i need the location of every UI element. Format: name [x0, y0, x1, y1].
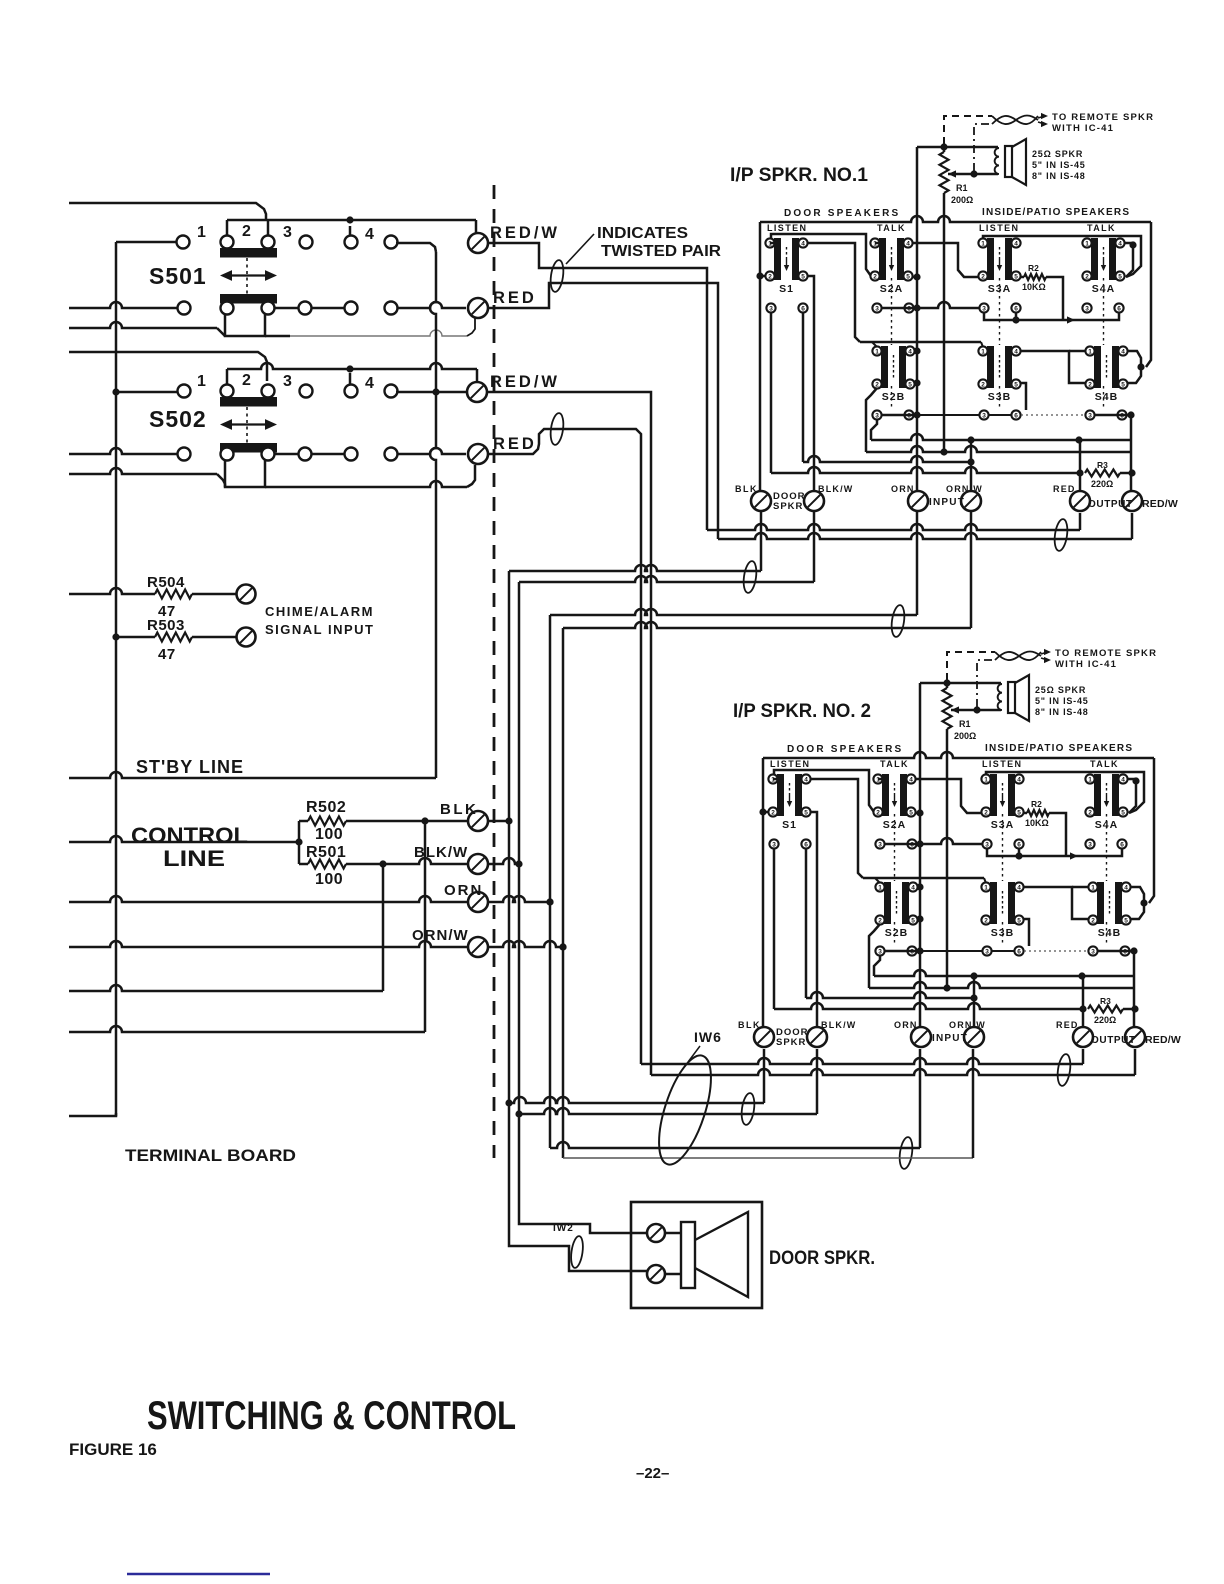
wire pair2 to block2 RED/W [651, 1069, 1135, 1075]
svg-text:R1: R1 [956, 183, 968, 193]
switch S3B [981, 882, 1023, 939]
switch S3A [978, 238, 1020, 295]
svg-text:3: 3 [985, 948, 989, 955]
wire S3B pin4 to S4B pins 1 2 [1023, 887, 1088, 919]
wire ORN/W riser/chain [562, 628, 565, 1158]
wire S2B pin5 stub [915, 382, 917, 385]
resistor R501 100 [299, 863, 308, 866]
svg-text:5: 5 [1121, 381, 1125, 388]
S502 lower contact row [178, 448, 191, 461]
svg-text:6: 6 [1017, 948, 1021, 955]
svg-text:SIGNAL INPUT: SIGNAL INPUT [265, 622, 375, 637]
wire line D ORN/W to block1 [563, 622, 971, 628]
block left frame / BLK lead [762, 758, 765, 1026]
door spkr terminal lower [647, 1265, 665, 1283]
S501 linkage dashes and arrows [246, 258, 248, 294]
wire S2B S3B S4B pin6 row [885, 950, 920, 953]
wire ORN from left edge [69, 896, 468, 902]
wire S2B pin4 stub [915, 350, 917, 353]
twisted marker pair C/D [890, 604, 906, 637]
svg-text:5: 5 [1014, 381, 1018, 388]
svg-text:1: 1 [1091, 884, 1095, 891]
svg-text:6: 6 [1120, 841, 1124, 848]
wire S2A pin6 stub [882, 307, 917, 310]
svg-text:2: 2 [984, 917, 988, 924]
svg-text:5: 5 [909, 809, 913, 816]
svg-text:R504: R504 [147, 574, 185, 591]
inner rail door speakers [774, 770, 874, 812]
svg-text:4: 4 [801, 240, 805, 247]
svg-text:3: 3 [982, 412, 986, 419]
bus end wire to left edge [69, 1113, 116, 1116]
svg-text:4: 4 [1121, 348, 1125, 355]
svg-text:RED/W: RED/W [490, 224, 560, 242]
terminal BLK board [468, 811, 488, 831]
wire BLK to door spkr [509, 1103, 648, 1271]
twisted pair symbol to remote [995, 652, 1041, 661]
svg-text:6: 6 [1117, 305, 1121, 312]
wire line A BLK to block1 [508, 570, 511, 573]
wire S1 pin3 down and across to R3 [773, 849, 776, 1009]
linkage dash S2 [894, 814, 896, 881]
S2A pins 3 6 [875, 839, 884, 848]
S3B pins 3 6 [982, 946, 991, 955]
twisted marker block2 C/D [898, 1136, 914, 1169]
wire BLK/W chain to block2 [519, 1108, 817, 1114]
svg-text:5: 5 [1014, 273, 1018, 280]
svg-text:1: 1 [878, 884, 882, 891]
svg-text:RED/W: RED/W [1145, 1034, 1181, 1046]
wire S2B pin2 down [866, 388, 877, 452]
wire S2A pin6 stub [885, 843, 920, 846]
svg-text:4: 4 [804, 776, 808, 783]
svg-text:2: 2 [242, 223, 251, 240]
svg-text:RED: RED [493, 435, 537, 453]
wire R2 to S4A pin6 [1115, 313, 1119, 320]
svg-text:SWITCHING & CONTROL: SWITCHING & CONTROL [147, 1394, 516, 1438]
twisted pair marker at block1 output [1053, 518, 1069, 551]
wire S2B pin3 to OUTPUT node [871, 420, 877, 440]
wire ORN to riser [488, 896, 550, 902]
wire S3B pin5 stub [1023, 919, 1029, 946]
svg-text:TO REMOTE SPKR: TO REMOTE SPKR [1052, 112, 1154, 123]
twisted marker block2 A/B [740, 1092, 756, 1125]
switch S2A [870, 238, 912, 295]
resistor R3 220ohm [1088, 1006, 1123, 1013]
svg-text:8" IN IS-48: 8" IN IS-48 [1032, 171, 1086, 181]
S2B pins 3 6 [875, 946, 884, 955]
svg-text:DOOR SPEAKERS: DOOR SPEAKERS [787, 744, 903, 755]
terminal chime 1 [237, 585, 256, 604]
svg-text:1: 1 [984, 884, 988, 891]
twisted marker IW2 [569, 1235, 584, 1268]
terminal BLK/W board [468, 854, 488, 874]
block1 RED/W riser [1131, 513, 1134, 539]
wire S3B pin4 to S4B pins 1 2 [1020, 351, 1085, 383]
svg-text:6: 6 [1014, 305, 1018, 312]
linkage dash S3 lower [1002, 922, 1004, 946]
S3A pins 3 6 [982, 839, 991, 848]
svg-text:LISTEN: LISTEN [767, 223, 807, 233]
linkage dash S2 lower [891, 386, 893, 410]
wire line C ORN to block1 [550, 609, 917, 615]
S1 pins 3 6 [769, 839, 778, 848]
wire S2B S3B S4B pin6 row [882, 414, 917, 417]
svg-text:ORN: ORN [894, 1020, 918, 1030]
wire BLK chain to block2 [509, 1097, 764, 1103]
S4B pins 3 6 [1085, 410, 1094, 419]
wire pair1 to RED/W [718, 533, 1132, 539]
wire bus to S501 contact 1 [116, 241, 176, 244]
svg-text:–22–: –22– [636, 1465, 669, 1482]
svg-text:5: 5 [906, 273, 910, 280]
wire ORN chain to block2 [550, 1142, 920, 1148]
linkage dash S4 lower [1103, 386, 1105, 410]
svg-text:WITH IC-41: WITH IC-41 [1052, 123, 1114, 134]
svg-text:DOOR SPKR.: DOOR SPKR. [769, 1248, 875, 1269]
IW6 cable marker [648, 1050, 721, 1171]
linkage dash S2 lower [894, 922, 896, 946]
svg-text:2: 2 [875, 381, 879, 388]
svg-text:3: 3 [878, 841, 882, 848]
svg-text:3: 3 [875, 305, 879, 312]
svg-text:5: 5 [911, 917, 915, 924]
wire BLK/W to door spkr [519, 1114, 648, 1233]
terminal RED/W no2 [467, 382, 487, 402]
svg-text:1: 1 [984, 776, 988, 783]
svg-text:200Ω: 200Ω [951, 195, 973, 205]
linkage dash S3 [999, 278, 1001, 345]
svg-text:S501: S501 [149, 263, 207, 289]
wire BLK to riser [488, 820, 509, 823]
svg-text:3: 3 [283, 224, 292, 241]
wire S1 pin5 to BLK/W terminal [811, 812, 817, 1026]
svg-text:2: 2 [1088, 381, 1092, 388]
svg-text:ORN/W: ORN/W [949, 1020, 986, 1030]
wire S2A pin4 to S3A pin2 [875, 242, 880, 245]
svg-text:2: 2 [876, 809, 880, 816]
wire RED-1 to block1 output [488, 283, 718, 539]
wire S3A pin3/pin6 row [984, 313, 1115, 320]
svg-text:R501: R501 [306, 844, 346, 861]
block top frame wire [763, 752, 1154, 758]
wire BLK riser/chain [508, 571, 511, 1103]
terminal RED no1 [468, 298, 488, 318]
wire S1 pin5 to BLK/W terminal [808, 276, 814, 490]
dashed separator line [493, 185, 496, 1158]
svg-text:25Ω SPKR: 25Ω SPKR [1035, 685, 1086, 695]
svg-text:3: 3 [1088, 841, 1092, 848]
svg-text:1: 1 [1088, 776, 1092, 783]
svg-text:TALK: TALK [1090, 759, 1119, 769]
S4A pins 3 6 [1082, 303, 1091, 312]
svg-text:TALK: TALK [877, 223, 906, 233]
wire RED-2 down to block2 [488, 429, 641, 1064]
svg-text:2: 2 [878, 917, 882, 924]
svg-text:CHIME/ALARM: CHIME/ALARM [265, 604, 374, 619]
speaker 25ohm [995, 148, 999, 174]
svg-text:CONTROL: CONTROL [131, 823, 248, 848]
svg-text:4: 4 [1014, 348, 1018, 355]
wire left edge to S502 row2 [69, 448, 177, 454]
svg-text:4: 4 [1017, 884, 1021, 891]
linkage dash S3 lower [999, 386, 1001, 410]
svg-text:I/P SPKR. NO. 2: I/P SPKR. NO. 2 [733, 701, 871, 722]
wire BLK/W riser/chain [518, 582, 521, 1114]
terminal RED/W [1122, 491, 1142, 511]
dashed wire to remote spkr [947, 652, 995, 680]
svg-text:BLK: BLK [738, 1020, 761, 1030]
inner rail door speakers [771, 234, 871, 276]
svg-text:IW6: IW6 [694, 1029, 722, 1045]
switch S1 [765, 238, 807, 295]
svg-text:INPUT: INPUT [932, 1033, 968, 1044]
wire left edge RED net under S501 [69, 322, 217, 328]
wire S4B pin4 pin5 bracket [1130, 887, 1144, 919]
wire to S3A pin3 [917, 302, 979, 308]
wire line B to RED/W node [869, 982, 1134, 988]
svg-text:220Ω: 220Ω [1091, 479, 1113, 489]
svg-text:4: 4 [909, 776, 913, 783]
wire RED/W-2 down to block2 [487, 392, 651, 1075]
svg-text:5: 5 [1017, 917, 1021, 924]
door speaker cone [695, 1212, 748, 1297]
svg-text:S4B: S4B [1095, 391, 1118, 403]
wire R2 to S4A pin6 [1118, 849, 1122, 856]
svg-text:2: 2 [984, 809, 988, 816]
svg-text:RED: RED [1056, 1020, 1079, 1030]
svg-text:S1: S1 [779, 283, 794, 295]
terminal ORN/W [961, 491, 981, 511]
svg-text:RED/W: RED/W [1142, 498, 1178, 510]
svg-text:2: 2 [771, 809, 775, 816]
wire left edge to BLK/W vertical [69, 985, 383, 991]
svg-text:RED: RED [493, 289, 537, 307]
twisted pair marker at block2 output [1056, 1053, 1072, 1086]
block left frame / BLK lead [759, 222, 762, 490]
svg-text:5: 5 [1121, 809, 1125, 816]
wire line B to RED/W node [866, 446, 1131, 452]
svg-text:R3: R3 [1097, 460, 1108, 470]
svg-text:ORN: ORN [891, 484, 915, 494]
linkage dash S3 [1002, 814, 1004, 881]
wire S1 pin3 down and across to R3 [770, 313, 773, 473]
switch S2B [875, 882, 917, 939]
svg-text:3: 3 [878, 948, 882, 955]
wire S1 pin4 to S2B pin1 [773, 778, 778, 781]
svg-text:3: 3 [1091, 948, 1095, 955]
terminal chime 2 [237, 628, 256, 647]
svg-text:LISTEN: LISTEN [770, 759, 810, 769]
wire BLK/W to riser [488, 858, 519, 864]
twisted marker pair A/B [742, 560, 758, 593]
svg-text:2: 2 [768, 273, 772, 280]
wire to S3A pin3 [920, 838, 982, 844]
switch S2B [872, 346, 914, 403]
svg-text:LINE: LINE [163, 846, 225, 871]
terminal RED/W [1125, 1027, 1145, 1047]
block1 OUTPUT riser [1079, 513, 1082, 530]
svg-text:2: 2 [1085, 273, 1089, 280]
svg-text:3: 3 [772, 841, 776, 848]
svg-text:6: 6 [804, 841, 808, 848]
svg-text:25Ω SPKR: 25Ω SPKR [1032, 149, 1083, 159]
S2B pins 3 6 [872, 410, 881, 419]
S501 upper contact row [177, 236, 190, 249]
R1 lower lead vertical [946, 758, 949, 988]
switch S3B [978, 346, 1020, 403]
svg-text:47: 47 [158, 646, 176, 663]
wire pair2 to block2 OUTPUT [641, 1058, 1083, 1064]
svg-text:SPKR: SPKR [776, 1037, 806, 1048]
svg-text:INSIDE/PATIO SPEAKERS: INSIDE/PATIO SPEAKERS [982, 207, 1130, 218]
svg-text:3: 3 [875, 412, 879, 419]
svg-text:10KΩ: 10KΩ [1025, 818, 1049, 828]
svg-text:4: 4 [911, 884, 915, 891]
svg-text:DOOR SPEAKERS: DOOR SPEAKERS [784, 208, 900, 219]
wire ST BY line [69, 772, 436, 778]
svg-text:TERMINAL BOARD: TERMINAL BOARD [125, 1147, 296, 1165]
switch S501 rail [227, 219, 476, 222]
wire S4A pin4 pin5 bracket [1125, 243, 1133, 277]
wire left edge to S501 row2 [69, 302, 177, 308]
S502 linkage dashes and arrows [246, 407, 248, 443]
terminal ORN board [468, 892, 488, 912]
resistor R502 100 [299, 820, 308, 823]
terminal BLK/W [807, 1027, 827, 1047]
svg-text:S502: S502 [149, 406, 207, 432]
speaker 25ohm [998, 684, 1002, 710]
vertical bus line [115, 242, 118, 1116]
svg-text:BLK: BLK [440, 801, 478, 818]
svg-text:OUTPUT: OUTPUT [1091, 1035, 1136, 1046]
wire S2B pin5 stub [918, 918, 920, 921]
svg-text:1: 1 [981, 348, 985, 355]
svg-text:4: 4 [365, 375, 374, 392]
twisted pair symbol to remote [992, 116, 1038, 125]
svg-text:ST'BY LINE: ST'BY LINE [136, 757, 244, 777]
svg-text:BLK: BLK [735, 484, 758, 494]
S4B pins 3 6 [1088, 946, 1097, 955]
wire S2A pin5 stub [913, 276, 917, 279]
svg-text:OUTPUT: OUTPUT [1088, 499, 1133, 510]
svg-text:LISTEN: LISTEN [982, 759, 1022, 769]
block right frame wire [1146, 222, 1151, 367]
svg-text:5: 5 [1118, 273, 1122, 280]
S4A pins 3 6 [1085, 839, 1094, 848]
resistor R3 220ohm [1085, 470, 1120, 477]
wire S1 pin6 down and across [805, 849, 808, 998]
svg-text:S3B: S3B [988, 391, 1011, 403]
svg-text:S4B: S4B [1098, 927, 1121, 939]
terminal RED OUTPUT [1070, 491, 1090, 511]
svg-text:INPUT: INPUT [929, 497, 965, 508]
wires terminals to driver [665, 1232, 681, 1235]
svg-text:R503: R503 [147, 617, 185, 634]
wire S2A pin4 to S3A pin2 [878, 778, 883, 781]
svg-text:R2: R2 [1028, 263, 1039, 273]
door speaker box [631, 1202, 762, 1308]
svg-text:LISTEN: LISTEN [979, 223, 1019, 233]
svg-text:S2B: S2B [885, 927, 908, 939]
svg-text:5" IN IS-45: 5" IN IS-45 [1035, 696, 1089, 706]
svg-text:S1: S1 [782, 819, 797, 831]
svg-text:220Ω: 220Ω [1094, 1015, 1116, 1025]
S2A pins 3 6 [872, 303, 881, 312]
switch S4B [1088, 882, 1130, 939]
svg-text:3: 3 [1088, 412, 1092, 419]
svg-text:ORN: ORN [444, 882, 483, 899]
svg-text:WITH IC-41: WITH IC-41 [1055, 659, 1117, 670]
svg-text:TALK: TALK [1087, 223, 1116, 233]
wire S4B pin4 pin5 bracket [1127, 351, 1141, 383]
S502 upper contact row [178, 385, 191, 398]
S1 pins 3 6 [766, 303, 775, 312]
R1 wiper arrow [951, 706, 959, 713]
svg-text:INDICATES: INDICATES [597, 225, 688, 242]
svg-text:BLK/W: BLK/W [821, 1020, 857, 1030]
switch S3A [981, 774, 1023, 831]
wire S502 pin4R to RED/W-2 dot [396, 391, 467, 394]
svg-text:3: 3 [769, 305, 773, 312]
svg-text:1: 1 [197, 224, 206, 241]
switch S1 [768, 774, 810, 831]
wire S501 pin4R to ST BY vertical [396, 243, 436, 252]
inner rail inside/patio [986, 772, 1144, 813]
svg-text:ORN/W: ORN/W [946, 484, 983, 494]
switch S4B [1085, 346, 1127, 403]
wire rail to S2B/S3B pin1 [863, 877, 984, 880]
wire ORN/W chain to block2 [563, 1157, 973, 1159]
block top frame wire [760, 216, 1151, 222]
resistor R1 200ohm potentiometer [920, 682, 1001, 685]
direction arrow [1070, 852, 1078, 859]
svg-text:R502: R502 [306, 799, 346, 816]
resistor R503 47 [112, 633, 119, 640]
svg-text:FIGURE 16: FIGURE 16 [69, 1440, 157, 1459]
svg-text:200Ω: 200Ω [954, 731, 976, 741]
wire control line [69, 836, 299, 842]
S502 lower bar [220, 443, 277, 453]
svg-text:5: 5 [804, 809, 808, 816]
speaker return vertical [919, 683, 922, 1026]
wire S1 pin6 down and across [802, 313, 805, 462]
svg-text:S2B: S2B [882, 391, 905, 403]
switch S4A [1085, 774, 1127, 831]
linkage dash S4 [1106, 814, 1108, 881]
svg-text:4: 4 [906, 240, 910, 247]
door spkr terminal upper [647, 1224, 665, 1242]
resistor R2 10Kohm [1021, 276, 1024, 279]
linkage dash S4 [1103, 278, 1105, 345]
wire ORN riser/chain [549, 615, 552, 1148]
svg-text:R1: R1 [959, 719, 971, 729]
svg-text:I/P SPKR. NO.1: I/P SPKR. NO.1 [730, 165, 868, 186]
svg-text:2: 2 [981, 273, 985, 280]
svg-text:5: 5 [908, 381, 912, 388]
blue underline mark [127, 1573, 270, 1575]
svg-text:1: 1 [1088, 348, 1092, 355]
terminal ORN INPUT [908, 491, 928, 511]
svg-text:S3B: S3B [991, 927, 1014, 939]
svg-text:2: 2 [873, 273, 877, 280]
wire ORN/W riser [973, 976, 976, 1026]
svg-text:4: 4 [365, 226, 374, 243]
wire S3B pin5 stub [1020, 383, 1026, 410]
svg-text:4: 4 [1118, 240, 1122, 247]
svg-text:RED: RED [1053, 484, 1076, 494]
R501 R502 branch box [298, 821, 301, 864]
